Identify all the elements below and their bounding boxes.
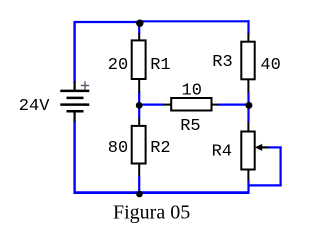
- wire bottom: [74, 191, 250, 194]
- wire middle node to R5 left: [139, 103, 164, 105]
- node A top junction: [136, 20, 143, 27]
- svg-text:R3: R3: [212, 53, 232, 72]
- svg-text:10: 10: [182, 82, 202, 101]
- svg-text:R5: R5: [180, 117, 200, 136]
- wire top left segment: [74, 21, 141, 23]
- svg-text:Figura 05: Figura 05: [113, 201, 190, 223]
- svg-text:24V: 24V: [19, 97, 50, 116]
- resistor R5: [163, 98, 218, 111]
- wire top right segment: [140, 20, 250, 22]
- battery V1: [60, 82, 89, 122]
- svg-text:R1: R1: [150, 56, 170, 75]
- wire R4 wiper return to bottom lead: [248, 184, 282, 186]
- node C right junction: [245, 102, 252, 109]
- resistor R3: [241, 34, 254, 93]
- svg-text:40: 40: [260, 56, 280, 75]
- wire middle node to R2 top: [138, 104, 140, 119]
- svg-text:R4: R4: [212, 142, 232, 161]
- wire R2 bottom to bottom node: [138, 176, 140, 194]
- wire right vertical top: [247, 20, 249, 34]
- svg-text:20: 20: [108, 56, 128, 75]
- wire R4 wiper vertical: [280, 146, 282, 186]
- wire middle branch below top node: [138, 22, 140, 34]
- resistor R1: [132, 34, 146, 93]
- wire left vertical lower: [73, 121, 75, 194]
- node B middle junction: [136, 102, 143, 109]
- wire R3 bottom to right node: [247, 92, 249, 106]
- wire R4 bottom to bottom wire: [247, 180, 249, 194]
- node D bottom junction: [136, 191, 143, 198]
- svg-text:R2: R2: [150, 139, 170, 158]
- wire R5 right to right node: [218, 103, 250, 105]
- battery plus polarity mark: [81, 81, 89, 90]
- wire right node to R4 top: [247, 104, 249, 122]
- svg-text:80: 80: [108, 139, 128, 158]
- resistor R2: [132, 118, 146, 176]
- wire R1 bottom to middle node: [138, 92, 140, 106]
- R4 wiper arrow: [255, 144, 269, 151]
- resistor R4 (rheostat): [241, 122, 254, 181]
- wire R4 wiper horizontal: [268, 146, 282, 148]
- wire left vertical upper: [73, 21, 75, 83]
